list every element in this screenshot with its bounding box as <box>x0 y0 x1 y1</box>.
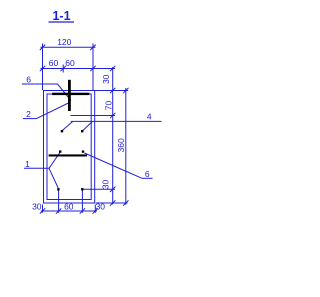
chain tick at section bottom <box>110 200 115 205</box>
rebar dot bottom-left <box>57 188 59 190</box>
extension: section top to chain <box>95 90 129 92</box>
dimension 60,60 tick middle <box>61 66 66 71</box>
extension: plate bar bottom to chain <box>71 115 116 117</box>
rebar dot upper-right above middle bar <box>82 150 84 152</box>
label 6 top-left text <box>26 74 31 84</box>
label 6 bottom underline <box>142 177 153 179</box>
dimension 120 tick right <box>90 45 95 50</box>
bottom dimension 30,60,30 line <box>41 210 97 212</box>
svg-text:1: 1 <box>25 159 30 169</box>
bottom dimension 30 right text <box>96 201 106 211</box>
bottom extension from right rebar <box>81 191 83 213</box>
right vertical dimension chain <box>112 67 114 205</box>
svg-text:30: 30 <box>32 201 42 211</box>
svg-text:4: 4 <box>147 111 152 121</box>
svg-text:6: 6 <box>145 169 150 179</box>
svg-text:2: 2 <box>26 109 31 119</box>
label 1 branch to lower left rebar <box>49 168 58 188</box>
bottom extension right corner <box>94 205 96 213</box>
chain tick at bottom rebar level <box>110 187 115 192</box>
dimension 120 tick left <box>40 45 45 50</box>
label 2 leader <box>37 102 71 119</box>
label 6 bottom text <box>145 169 150 179</box>
rebar dot upper-left above middle bar <box>59 150 61 152</box>
label 6 top-left leader <box>34 84 71 101</box>
svg-text:6: 6 <box>26 74 31 84</box>
bottom dim tick 2 <box>56 208 61 213</box>
label 4 leader line <box>71 120 162 122</box>
title 1-1 <box>52 9 70 23</box>
dimension 120 line <box>41 46 96 48</box>
svg-text:360: 360 <box>116 138 126 152</box>
dimension 60,60 tick left <box>40 66 45 71</box>
extension: bottom rebar to chain <box>84 188 116 190</box>
dimension 60,60 line extending right to vertical chain <box>41 68 116 70</box>
label 2 text <box>26 109 31 119</box>
bottom dim tick 4 <box>93 208 98 213</box>
dimension 360 chain line <box>125 88 127 205</box>
extension line left of top dims <box>42 44 44 91</box>
svg-text:60: 60 <box>65 58 75 68</box>
dimension 360 text <box>116 138 126 152</box>
svg-text:60: 60 <box>49 58 59 68</box>
embedded plate horizontal bar <box>52 93 89 95</box>
label 6 top-left underline <box>22 83 35 85</box>
svg-text:60: 60 <box>64 201 74 211</box>
dimension 30 bottom right text <box>100 180 110 190</box>
bottom extension left corner <box>42 205 44 213</box>
bottom dim tick 3 <box>80 208 85 213</box>
extension line right of top dims <box>92 44 94 91</box>
dimension 30 top right text <box>101 74 111 84</box>
label 1 underline and leader <box>24 167 49 169</box>
extension: section bottom to chain <box>96 202 128 204</box>
dimension 60 right text <box>65 58 75 68</box>
label 1 text <box>25 159 30 169</box>
rebar dot middle-left <box>61 130 63 132</box>
bottom dim tick 1 <box>40 208 45 213</box>
dimension 120 text <box>57 37 71 47</box>
svg-text:120: 120 <box>57 37 71 47</box>
middle embedded bar <box>49 154 87 156</box>
svg-text:30: 30 <box>96 201 106 211</box>
rebar dot bottom-right <box>81 188 83 190</box>
label 1 branch to upper left rebar <box>49 153 60 169</box>
svg-text:30: 30 <box>101 74 111 84</box>
label 4 branch to left middle rebar <box>63 121 73 130</box>
dimension 70 right text <box>104 101 114 111</box>
label 4 branch to right middle rebar <box>83 121 93 130</box>
360 chain tick top <box>123 88 128 93</box>
svg-text:70: 70 <box>104 101 114 111</box>
360 chain tick bottom <box>123 200 128 205</box>
svg-text:1-1: 1-1 <box>52 9 70 23</box>
title underline <box>49 21 75 23</box>
bottom extension from left rebar <box>58 191 60 213</box>
chain tick at 60,60 level <box>110 66 115 71</box>
label 6 bottom connector <box>84 153 142 178</box>
svg-text:30: 30 <box>100 180 110 190</box>
dimension 60,60 tick right <box>90 66 95 71</box>
label 4 text <box>147 111 152 121</box>
embedded plate anchor vertical bar <box>68 80 71 111</box>
concrete section outer rectangle <box>44 91 95 204</box>
extension line middle of 60,60 <box>62 65 64 73</box>
stirrup inner rectangle <box>47 94 91 200</box>
chain tick at plate bar bottom level <box>110 113 115 118</box>
label 2 underline <box>23 118 37 120</box>
bottom dimension 60 text <box>64 201 74 211</box>
bottom dimension 30 left text <box>32 201 42 211</box>
chain tick at section top <box>110 88 115 93</box>
dimension 60 left text <box>49 58 59 68</box>
rebar dot middle-right <box>81 130 83 132</box>
